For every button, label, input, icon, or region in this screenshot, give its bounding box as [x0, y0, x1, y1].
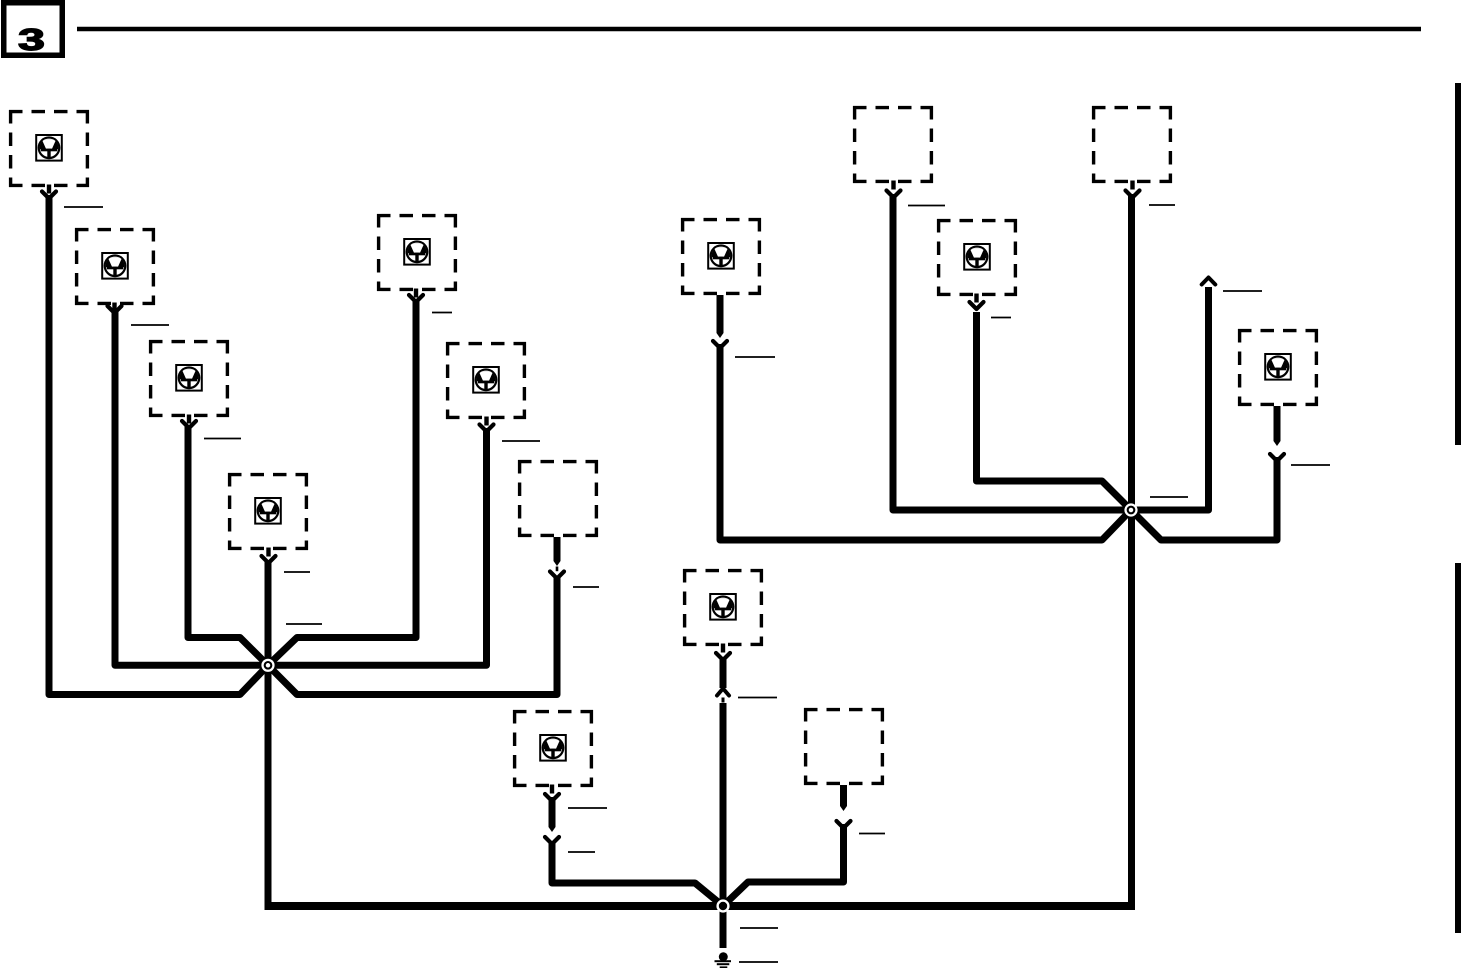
svg-text:3: 3	[18, 22, 45, 57]
